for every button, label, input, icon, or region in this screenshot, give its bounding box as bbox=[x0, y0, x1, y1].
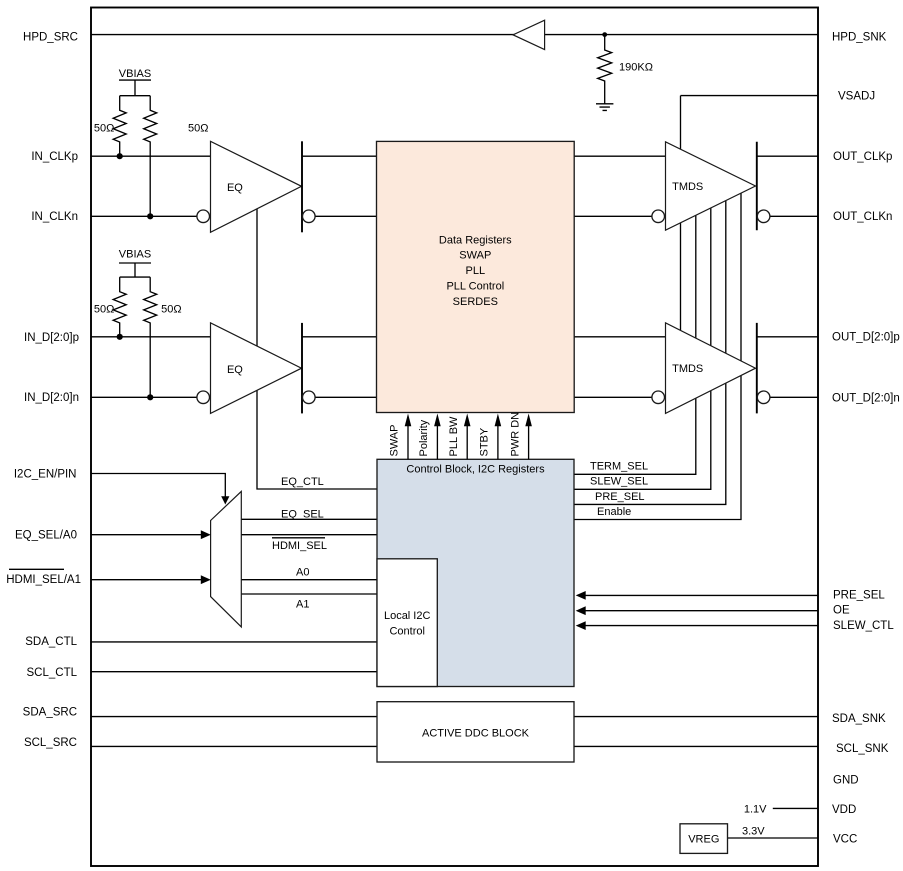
bubble EQ1 input bbox=[197, 210, 210, 223]
svg-text:IN_D[2:0]p: IN_D[2:0]p bbox=[24, 332, 79, 344]
wire VDD 1.1V bbox=[773, 807, 818, 809]
svg-text:Polarity: Polarity bbox=[418, 419, 430, 456]
wire SCL_CTL bbox=[91, 671, 377, 673]
svg-text:1.1V: 1.1V bbox=[744, 803, 767, 815]
value label 1.1V bbox=[744, 803, 767, 815]
wire VSADJ vertical (behind TMDS triangles) bbox=[680, 96, 682, 336]
svg-text:Enable: Enable bbox=[597, 506, 631, 518]
pin label IN_CLKn bbox=[31, 211, 78, 223]
svg-text:STBY: STBY bbox=[479, 427, 491, 456]
wire PRE_SEL vertical+horizontal bbox=[574, 196, 726, 504]
svg-text:50Ω: 50Ω bbox=[161, 303, 181, 315]
bubble TMDS1 input bbox=[652, 210, 665, 223]
svg-text:SLEW_CTL: SLEW_CTL bbox=[833, 620, 894, 632]
svg-text:SWAP: SWAP bbox=[389, 425, 401, 457]
svg-text:SCL_CTL: SCL_CTL bbox=[27, 667, 78, 679]
bubble EQ2 output bbox=[303, 391, 316, 404]
box Data Registers bbox=[377, 141, 575, 412]
net label HDMI_SEL with overline bbox=[272, 538, 327, 552]
pin label VSADJ bbox=[838, 90, 875, 102]
svg-text:TERM_SEL: TERM_SEL bbox=[590, 460, 648, 472]
svg-text:SCL_SNK: SCL_SNK bbox=[836, 743, 889, 755]
value label 50ohm R2 bbox=[188, 122, 208, 134]
pin label OUT_CLKn bbox=[833, 211, 892, 223]
svg-text:A1: A1 bbox=[296, 599, 309, 611]
svg-text:50Ω: 50Ω bbox=[94, 303, 114, 315]
svg-text:IN_CLKn: IN_CLKn bbox=[31, 211, 78, 223]
svg-text:A0: A0 bbox=[296, 567, 309, 579]
wire TMDS2 in n bbox=[574, 396, 652, 398]
svg-text:I2C_EN/PIN: I2C_EN/PIN bbox=[14, 468, 77, 480]
svg-text:HPD_SNK: HPD_SNK bbox=[832, 31, 887, 43]
bubble EQ2 input bbox=[197, 391, 210, 404]
svg-text:SDA_SNK: SDA_SNK bbox=[832, 713, 886, 725]
svg-text:Data Registers: Data Registers bbox=[439, 234, 512, 246]
svg-text:HDMI_SEL/A1: HDMI_SEL/A1 bbox=[6, 574, 81, 586]
svg-text:SERDES: SERDES bbox=[453, 296, 498, 308]
wire OUT_D[2:0]p bbox=[757, 336, 818, 338]
chip outline bbox=[91, 8, 818, 867]
wire TMDS1 in n bbox=[574, 215, 652, 217]
wire mux out A0 bbox=[241, 579, 377, 581]
pin label SDA_SNK bbox=[832, 713, 886, 725]
wire mux out EQ_SEL bbox=[241, 518, 377, 520]
EQ2 output coupling bar bbox=[301, 323, 303, 414]
bubble EQ1 output bbox=[303, 210, 316, 223]
op-amp EQ1 bbox=[211, 141, 302, 232]
value label 190Kohm bbox=[619, 61, 653, 73]
svg-text:PRE_SEL: PRE_SEL bbox=[595, 491, 645, 503]
svg-text:OUT_D[2:0]p: OUT_D[2:0]p bbox=[832, 331, 900, 343]
svg-text:VBIAS: VBIAS bbox=[119, 68, 151, 80]
value label 50ohm R4 bbox=[161, 303, 181, 315]
pin label SCL_SNK bbox=[836, 743, 889, 755]
pin label SDA_SRC bbox=[23, 707, 77, 719]
wire IN_D[2:0]p bbox=[91, 336, 211, 338]
arrowhead I2C_EN select down bbox=[221, 496, 229, 504]
mux MUX1 bbox=[211, 491, 242, 627]
svg-text:3.3V: 3.3V bbox=[742, 826, 765, 838]
svg-text:EQ_SEL: EQ_SEL bbox=[281, 508, 324, 520]
net label A1 bbox=[296, 599, 309, 611]
net label Enable bbox=[597, 506, 631, 518]
pin label HPD_SRC bbox=[23, 31, 78, 43]
pin label OUT_D[2:0]p bbox=[832, 331, 900, 343]
svg-text:PWR DN: PWR DN bbox=[509, 412, 521, 457]
arrowhead mux input EQ_SEL/A0 bbox=[201, 530, 211, 539]
ground bbox=[596, 104, 613, 111]
pin label HDMI_SEL/A1 with overline bbox=[6, 569, 81, 586]
svg-text:Local I2C: Local I2C bbox=[384, 610, 431, 622]
wire TMDS2 in p bbox=[574, 336, 666, 338]
arrowhead mux input HDMI_SEL/A1 bbox=[201, 575, 211, 584]
wire I2C_EN/PIN select bbox=[91, 474, 225, 498]
node IN_Dn junction bbox=[147, 394, 153, 400]
svg-text:SDA_SRC: SDA_SRC bbox=[23, 707, 77, 719]
resistor R1 50ohm VBIAS1 left bbox=[113, 96, 126, 157]
wire mux out A1 bbox=[241, 593, 377, 595]
net label A0 bbox=[296, 567, 309, 579]
pin label SLEW_CTL bbox=[833, 620, 894, 632]
arrow Polarity bbox=[418, 414, 441, 460]
svg-text:SDA_CTL: SDA_CTL bbox=[25, 636, 77, 648]
pin label IN_CLKp bbox=[31, 151, 78, 163]
pin label IN_D[2:0]n bbox=[24, 392, 79, 404]
net label TERM_SEL bbox=[590, 460, 648, 472]
wire IN_CLKp bbox=[91, 155, 211, 157]
svg-text:SCL_SRC: SCL_SRC bbox=[24, 737, 77, 749]
svg-text:TMDS: TMDS bbox=[672, 363, 703, 375]
svg-text:OUT_CLKp: OUT_CLKp bbox=[833, 151, 892, 163]
svg-text:OUT_D[2:0]n: OUT_D[2:0]n bbox=[832, 392, 900, 404]
pin label OE bbox=[833, 605, 850, 617]
svg-text:HDMI_SEL: HDMI_SEL bbox=[272, 540, 327, 552]
svg-text:EQ: EQ bbox=[227, 364, 243, 376]
wire VSADJ horizontal bbox=[681, 95, 819, 97]
svg-text:190KΩ: 190KΩ bbox=[619, 61, 653, 73]
svg-text:VREG: VREG bbox=[688, 833, 719, 845]
EQ1 output coupling bar bbox=[301, 141, 303, 232]
svg-text:PRE_SEL: PRE_SEL bbox=[833, 589, 885, 601]
wire VCC 3.3V bbox=[728, 837, 819, 839]
svg-text:OUT_CLKn: OUT_CLKn bbox=[833, 211, 892, 223]
svg-text:GND: GND bbox=[833, 774, 859, 786]
value label VBIAS1 bbox=[119, 68, 151, 80]
arrowhead PRE_SEL left bbox=[576, 591, 586, 600]
pin label I2C_EN/PIN bbox=[14, 468, 77, 480]
svg-text:EQ_SEL/A0: EQ_SEL/A0 bbox=[15, 529, 77, 541]
svg-text:IN_CLKp: IN_CLKp bbox=[31, 151, 78, 163]
op-amp TMDS1 bbox=[666, 142, 756, 230]
svg-text:ACTIVE DDC BLOCK: ACTIVE DDC BLOCK bbox=[422, 727, 530, 739]
wire OUT_CLKp bbox=[757, 155, 818, 157]
wire mux out HDMI_SEL bbox=[241, 534, 377, 536]
bubble TMDS1 output bbox=[757, 210, 770, 223]
VBIAS1 rail bbox=[119, 80, 151, 96]
wire PRE_SEL input bbox=[585, 594, 818, 596]
resistor R5 190Kohm bbox=[598, 35, 612, 104]
arrowhead OE left bbox=[576, 606, 586, 615]
svg-text:EQ_CTL: EQ_CTL bbox=[281, 476, 324, 488]
value label 50ohm R1 bbox=[94, 122, 114, 134]
resistor R3 50ohm VBIAS2 left bbox=[113, 277, 126, 337]
svg-text:EQ: EQ bbox=[227, 182, 243, 194]
value label 50ohm R3 bbox=[94, 303, 114, 315]
op-amp EQ2 bbox=[211, 323, 302, 414]
pin label GND bbox=[833, 774, 859, 786]
TMDS2 output coupling bar bbox=[756, 323, 758, 414]
pin label IN_D[2:0]p bbox=[24, 332, 79, 344]
pin label VDD bbox=[832, 804, 856, 816]
svg-text:TMDS: TMDS bbox=[672, 181, 703, 193]
svg-text:PLL BW: PLL BW bbox=[448, 416, 460, 457]
svg-text:SLEW_SEL: SLEW_SEL bbox=[590, 475, 648, 487]
value label VBIAS2 bbox=[119, 249, 151, 261]
arrow STBY bbox=[479, 414, 502, 460]
op-amp TMDS2 bbox=[666, 323, 756, 414]
svg-text:IN_D[2:0]n: IN_D[2:0]n bbox=[24, 392, 79, 404]
svg-text:Control Block, I2C Registers: Control Block, I2C Registers bbox=[406, 463, 545, 475]
arrow SWAP bbox=[389, 414, 412, 460]
pin label SDA_CTL bbox=[25, 636, 77, 648]
wire HPD_SRC to HPD_SNK bbox=[91, 34, 818, 36]
box VREG bbox=[680, 824, 728, 854]
wire Enable vertical+horizontal bbox=[574, 188, 741, 520]
node IN_CLKp junction bbox=[117, 153, 123, 159]
arrow PLL BW bbox=[448, 414, 471, 460]
wire SDA_SNK bbox=[574, 716, 818, 718]
pin label OUT_CLKp bbox=[833, 151, 892, 163]
wire SLEW_SEL vertical+horizontal bbox=[574, 203, 711, 489]
TMDS1 output coupling bar bbox=[756, 142, 758, 230]
pin label VCC bbox=[833, 834, 857, 846]
wire SDA_CTL bbox=[91, 641, 377, 643]
wire TERM_SEL vertical+horizontal bbox=[574, 210, 696, 474]
wire EQ2 out n bbox=[315, 396, 376, 398]
svg-text:PLL: PLL bbox=[466, 265, 486, 277]
net label SLEW_SEL bbox=[590, 475, 648, 487]
wire SCL_SNK bbox=[574, 745, 818, 747]
VBIAS2 rail bbox=[119, 263, 151, 277]
arrow PWR DN bbox=[509, 412, 532, 459]
wire EQ2 out p bbox=[302, 336, 377, 338]
wire EQ1 out n bbox=[315, 215, 376, 217]
pin label OUT_D[2:0]n bbox=[832, 392, 900, 404]
wire OUT_CLKn bbox=[770, 215, 818, 217]
svg-text:VDD: VDD bbox=[832, 804, 856, 816]
svg-text:OE: OE bbox=[833, 605, 850, 617]
bubble TMDS2 input bbox=[652, 391, 665, 404]
value label 3.3V bbox=[742, 826, 765, 838]
net label PRE_SEL bbox=[595, 491, 645, 503]
resistor R2 50ohm VBIAS1 right bbox=[144, 96, 157, 217]
wire SCL_SRC bbox=[91, 745, 377, 747]
svg-text:50Ω: 50Ω bbox=[94, 122, 114, 134]
wire OE input bbox=[585, 610, 818, 612]
inverter HPD buffer bbox=[513, 20, 545, 49]
node IN_CLKn junction bbox=[147, 213, 153, 219]
svg-text:VCC: VCC bbox=[833, 834, 857, 846]
node HPD junction bbox=[602, 32, 607, 37]
pin label HPD_SNK bbox=[832, 31, 887, 43]
wire IN_CLKn bbox=[91, 215, 197, 217]
wire IN_D[2:0]n bbox=[91, 396, 197, 398]
net label EQ_CTL bbox=[281, 476, 324, 488]
wire OUT_D[2:0]n bbox=[770, 396, 818, 398]
wire EQ_SEL/A0 input bbox=[91, 534, 202, 536]
svg-text:VBIAS: VBIAS bbox=[119, 249, 151, 261]
bubble TMDS2 output bbox=[757, 391, 770, 404]
net label EQ_SEL bbox=[281, 508, 324, 520]
pin label SCL_SRC bbox=[24, 737, 77, 749]
svg-text:VSADJ: VSADJ bbox=[838, 90, 875, 102]
node IN_Dp junction bbox=[117, 334, 123, 340]
svg-text:PLL Control: PLL Control bbox=[446, 281, 504, 293]
wire SDA_SRC bbox=[91, 716, 377, 718]
wire HDMI_SEL/A1 input bbox=[91, 579, 202, 581]
arrowhead SLEW_CTL left bbox=[576, 621, 586, 630]
svg-text:HPD_SRC: HPD_SRC bbox=[23, 31, 78, 43]
wire EQ1 out p bbox=[302, 155, 377, 157]
resistor R4 50ohm VBIAS2 right bbox=[144, 277, 157, 397]
svg-text:Control: Control bbox=[389, 625, 424, 637]
pin label PRE_SEL bbox=[833, 589, 885, 601]
svg-text:SWAP: SWAP bbox=[459, 249, 491, 261]
pin label EQ_SEL/A0 bbox=[15, 529, 77, 541]
wire SLEW_CTL input bbox=[585, 625, 818, 627]
pin label SCL_CTL bbox=[27, 667, 78, 679]
wire TMDS1 in p bbox=[574, 155, 666, 157]
wire EQ_CTL vertical and horizontal bbox=[257, 205, 377, 489]
box Control Block I2C Registers bbox=[377, 459, 574, 686]
box Local I2C Control bbox=[377, 559, 437, 687]
box ACTIVE DDC BLOCK bbox=[377, 702, 574, 762]
svg-text:50Ω: 50Ω bbox=[188, 122, 208, 134]
